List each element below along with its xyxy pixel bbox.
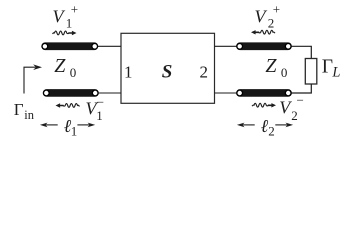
svg-text:L: L	[331, 65, 340, 81]
svg-text:2: 2	[268, 123, 275, 138]
load resistor	[305, 59, 317, 85]
svg-text:2: 2	[268, 16, 275, 31]
dimension arrow l2 right	[275, 123, 293, 128]
dimension arrow l2 left	[237, 123, 255, 128]
svg-text:S: S	[162, 61, 173, 82]
label V2-	[279, 92, 304, 123]
transmission line 1 top conductor	[41, 42, 98, 50]
transmission line 2 bottom conductor	[236, 89, 292, 97]
svg-text:+: +	[71, 2, 78, 17]
wave arrow V1- reflected	[56, 103, 80, 107]
svg-text:Z: Z	[265, 55, 277, 77]
svg-text:Γ: Γ	[322, 56, 333, 77]
label V2+	[255, 2, 281, 31]
label l2	[261, 116, 275, 139]
label V1+	[53, 2, 79, 31]
wire port2 bottom	[215, 92, 239, 94]
label Z0 left	[54, 55, 76, 80]
label Gamma_in	[14, 100, 35, 122]
wave arrow V2+ incident on port 2	[251, 30, 275, 34]
wire load top	[292, 46, 312, 58]
svg-text:Γ: Γ	[14, 100, 24, 119]
svg-text:2: 2	[291, 108, 298, 123]
label Z0 right	[265, 55, 287, 80]
wire port1 bottom	[96, 92, 121, 94]
svg-text:2: 2	[200, 62, 209, 81]
svg-text:Z: Z	[54, 55, 66, 77]
wire load bottom	[292, 84, 312, 93]
transmission line 1 bottom conductor	[43, 89, 99, 97]
svg-text:−: −	[297, 92, 304, 107]
svg-text:0: 0	[70, 65, 77, 80]
transmission line 2 top conductor	[236, 42, 292, 50]
wave arrow V2- toward load	[252, 103, 276, 107]
svg-text:1: 1	[66, 16, 73, 31]
label V1-	[86, 95, 105, 123]
svg-text:+: +	[273, 2, 280, 17]
svg-text:1: 1	[71, 123, 78, 138]
label Gamma_L	[322, 56, 341, 80]
label l1	[64, 116, 78, 139]
two-port network box S	[121, 33, 215, 103]
wire port1 top	[96, 45, 121, 47]
svg-text:−: −	[97, 95, 104, 110]
wave arrow V1+ incident	[53, 31, 77, 35]
svg-text:0: 0	[281, 65, 288, 80]
Gamma_in arrow	[24, 64, 42, 93]
svg-text:1: 1	[124, 62, 133, 81]
wire port2 top	[215, 45, 239, 47]
svg-text:1: 1	[96, 108, 103, 123]
dimension arrow l1 right	[77, 123, 95, 128]
dimension arrow l1 left	[40, 123, 58, 128]
svg-text:in: in	[24, 108, 34, 122]
